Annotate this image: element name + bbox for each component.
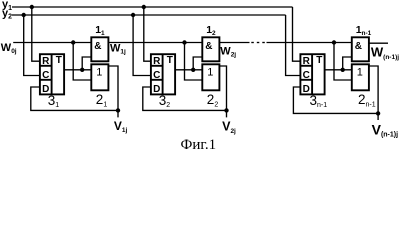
svg-text:R: R — [42, 56, 50, 67]
junction V output stage 1 — [116, 108, 120, 112]
label 1n-1 — [356, 24, 372, 37]
junction W rail stage 2 — [182, 40, 186, 44]
label V2j — [222, 120, 236, 135]
junction y2 rail stage 1 — [22, 13, 26, 17]
junction V output stage 2 — [224, 108, 228, 112]
wire feedback V to D input of flip-flop 32 — [143, 87, 227, 110]
junction y1 rail stage 1 — [30, 5, 34, 9]
OR gate 22 — [202, 64, 219, 90]
junction T output stage 1 — [80, 68, 84, 72]
label 11 — [95, 24, 105, 37]
wire y2 end drop to C input of flip-flop 3n-1 — [286, 15, 301, 76]
label y2 — [2, 8, 12, 21]
wire y1 end drop to R input of flip-flop 3n-1 — [293, 7, 301, 61]
svg-text:R: R — [303, 56, 311, 67]
svg-text:&: & — [205, 41, 212, 52]
flip-flop 31 (T trigger) — [40, 54, 64, 95]
svg-text:C: C — [42, 70, 49, 81]
wire W0j rail — [13, 42, 91, 44]
flip-flop 32 (T trigger) — [151, 54, 175, 95]
wire W2j rail (with break) — [219, 42, 351, 44]
wire W rail to lower input of OR gate 2n-1 — [334, 43, 352, 81]
wire W(n-1)j output stub — [369, 42, 388, 44]
wire W rail to lower input of OR gate 22 — [185, 43, 203, 81]
wire T output of 32 to upper input of OR gate 22 — [175, 69, 202, 71]
svg-text:R: R — [153, 56, 161, 67]
wire y2 to C input of flip-flop 31 — [24, 15, 40, 76]
wire T output of 3n-1 to upper input of OR gate 2n-1 — [325, 69, 352, 71]
svg-text:&: & — [355, 41, 362, 52]
wire W1j rail — [108, 42, 202, 44]
junction y2 rail stage 2 — [131, 13, 135, 17]
label 22 — [207, 92, 219, 108]
junction W rail stage 3 — [332, 40, 336, 44]
wire branch to lower input of AND gate 1n-1 — [343, 57, 352, 70]
wire output of OR gate 2n-1 down to V output — [369, 66, 378, 120]
svg-text:1: 1 — [96, 67, 102, 79]
ellipsis dashes on W rail — [251, 42, 264, 44]
junction y1 rail stage 2 — [142, 5, 146, 9]
wire T output of 31 to upper input of OR gate 21 — [64, 69, 91, 71]
label W(n-1)j — [371, 45, 399, 61]
svg-text:T: T — [167, 55, 173, 66]
caption Фиг.1 — [181, 137, 217, 153]
svg-text:T: T — [56, 55, 62, 66]
label V(n-1)j — [372, 121, 399, 138]
wire feedback V to D input of flip-flop 31 — [31, 87, 118, 110]
wire feedback V to D input of flip-flop 3n-1 — [293, 87, 378, 113]
junction W rail stage 1 — [71, 40, 75, 44]
AND gate 12 — [202, 37, 219, 61]
label 12 — [206, 24, 216, 37]
junction T output stage 2 — [191, 68, 195, 72]
wire W rail to lower input of OR gate 21 — [73, 43, 91, 81]
input rail y1 — [12, 6, 293, 8]
label W0j — [1, 42, 17, 55]
svg-text:1: 1 — [357, 67, 363, 79]
label W2j — [220, 46, 236, 59]
wire branch to lower input of AND gate 11 — [82, 57, 91, 70]
label W1j — [110, 43, 126, 56]
wire y1 to R input of flip-flop 32 — [144, 7, 151, 61]
svg-text:C: C — [153, 70, 160, 81]
OR gate 21 — [91, 64, 108, 90]
svg-text:T: T — [316, 55, 322, 66]
OR gate 2n-1 — [352, 64, 369, 90]
input rail y2 — [12, 14, 286, 16]
label 3n-1 — [310, 93, 328, 109]
label y1 — [2, 0, 12, 12]
junction T output stage 3 — [341, 68, 345, 72]
label 21 — [96, 92, 108, 108]
svg-text:Фиг.1: Фиг.1 — [181, 137, 217, 152]
label V1j — [114, 119, 128, 134]
wire y2 to C input of flip-flop 32 — [133, 15, 151, 76]
AND gate 1n-1 — [352, 37, 369, 61]
svg-text:1: 1 — [207, 67, 213, 79]
label 2n-1 — [358, 92, 376, 108]
label 32 — [159, 93, 171, 109]
wire output of OR gate 21 down to V output — [108, 66, 118, 117]
svg-text:C: C — [303, 70, 310, 81]
AND gate 11 — [91, 37, 108, 61]
svg-text:&: & — [94, 41, 101, 52]
wire branch to lower input of AND gate 12 — [193, 57, 202, 70]
wire y1 to R input of flip-flop 31 — [32, 7, 40, 61]
label 31 — [48, 93, 60, 109]
flip-flop 3n-1 (T trigger) — [300, 54, 324, 95]
wire output of OR gate 22 down to V output — [219, 66, 226, 117]
junction V output stage 3 — [376, 111, 380, 115]
